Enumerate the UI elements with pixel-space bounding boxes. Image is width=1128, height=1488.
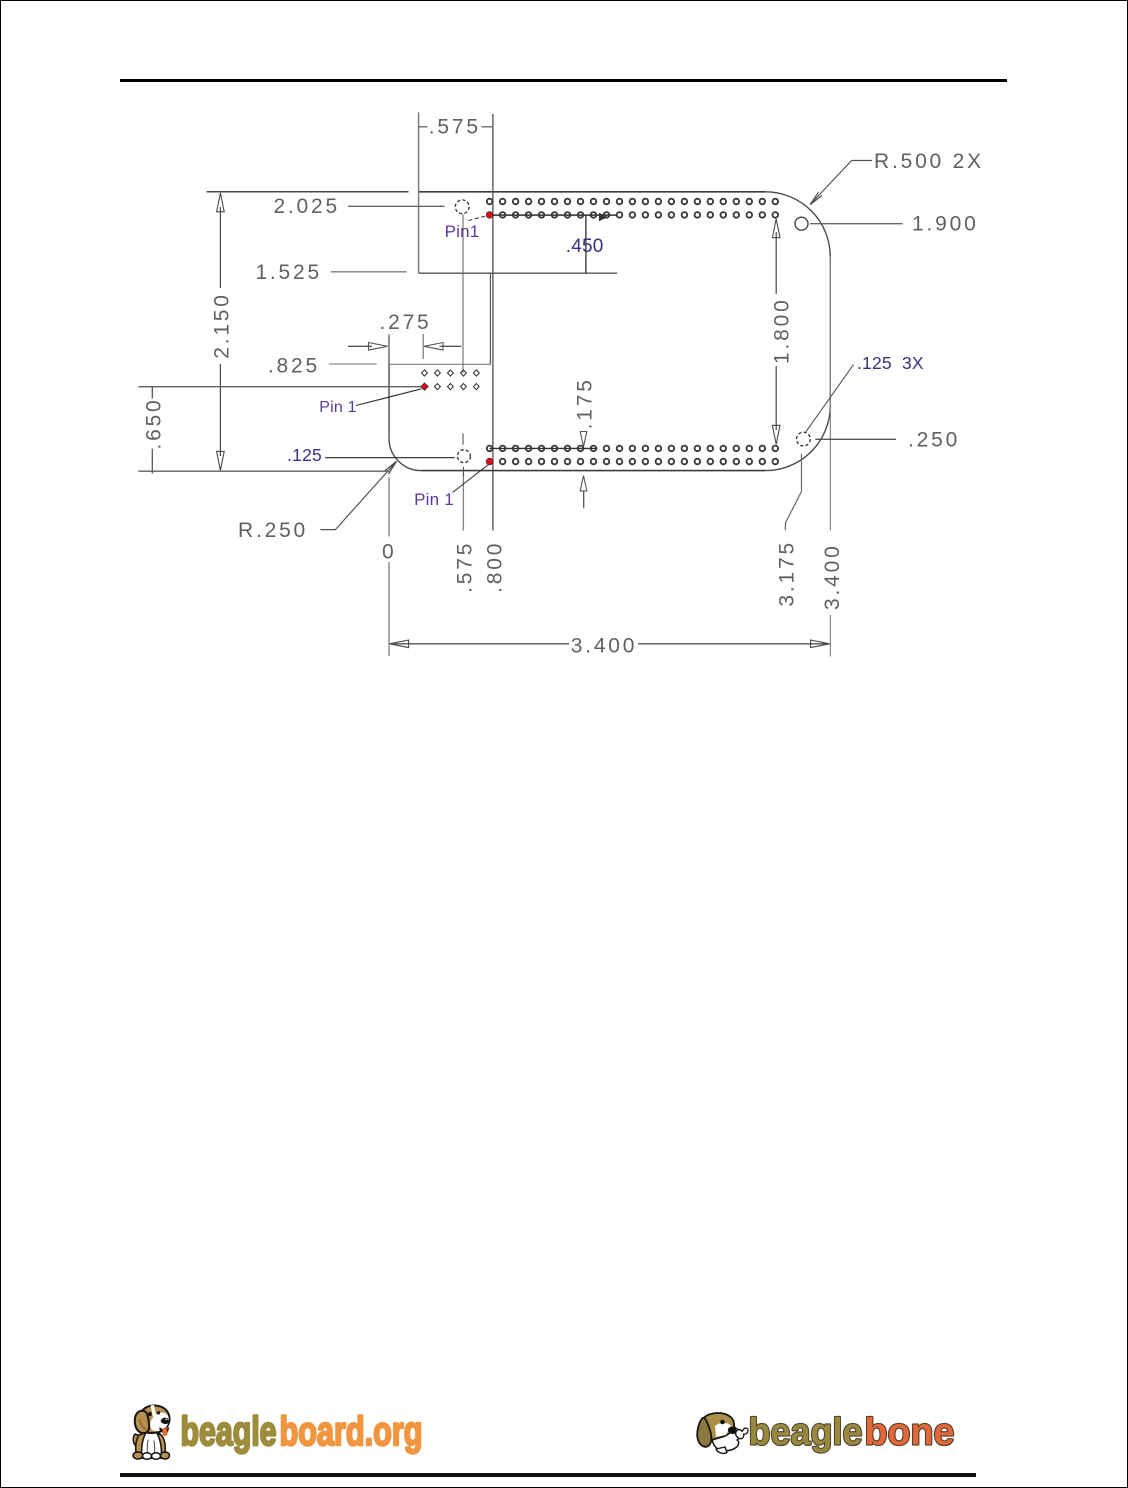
svg-text:bone: bone [865, 1412, 955, 1454]
beaglebone logo: beagle head mascot [697, 1413, 748, 1453]
ordinate 3.175: bent leader and rotated label [776, 454, 802, 607]
bottom expansion header row B (23 pins) [487, 459, 778, 465]
ordinate 3.400 right: extension line and rotated label [821, 406, 844, 657]
dimension .250 label and leader line [815, 429, 960, 452]
svg-text:.825: .825 [268, 355, 320, 378]
svg-text:Pin1: Pin1 [445, 222, 480, 241]
Pin1 label (top header) with leader [445, 216, 486, 241]
svg-text:beagle: beagle [749, 1412, 863, 1454]
svg-text:.125 3X: .125 3X [857, 353, 924, 373]
svg-text:Pin 1: Pin 1 [414, 490, 454, 509]
svg-text:.175: .175 [573, 377, 596, 429]
mounting hole bottom-right (3.175, .250) [797, 432, 811, 446]
bottom horizontal rule [120, 1473, 977, 1476]
beagleboard.org logo: beagle dog mascot [133, 1405, 170, 1459]
board outline: top-right corner arc R.500 [765, 192, 830, 257]
Pin 1 label (bottom header) with leader [414, 465, 488, 510]
board outline: bottom edge [421, 470, 765, 472]
top horizontal rule [120, 79, 1008, 83]
dimension .450 (navy): vertical line, pin row line, label [490, 213, 617, 273]
board outline: bottom-right corner arc R.500 [765, 406, 830, 471]
dimension .575 top: ticks and label [418, 116, 493, 139]
ordinate .575: extension line and rotated label [453, 474, 476, 593]
dimension .825 label and leader line [268, 355, 377, 378]
svg-text:Pin 1: Pin 1 [319, 399, 356, 416]
inner serial header row 2 (4 diamond pins + red Pin1) [435, 384, 480, 390]
R.500 2X label and leader arrow to top-right corner [810, 150, 984, 205]
dimension .175: rotated label, arrows at bottom rows [490, 377, 598, 508]
bottom header Pin1 red marker [487, 458, 493, 464]
dimension 2.025 label and leader line [273, 195, 444, 218]
board outline: left edge [388, 336, 390, 438]
svg-text:R.500 2X: R.500 2X [874, 150, 984, 173]
mounting hole bottom-left (.575, .125) [457, 433, 470, 476]
dimension 3.400 bottom: line, arrows, label [390, 635, 830, 658]
board outline: bottom-left corner arc R.250 [389, 438, 421, 471]
centerline through top-left hole down to inner header [462, 215, 464, 374]
inner serial header row 1 (5 diamond pins) [422, 370, 480, 376]
beagleboard.org logo text [181, 1408, 423, 1454]
svg-text:3.175: 3.175 [776, 540, 799, 607]
svg-text:R.250: R.250 [238, 519, 308, 542]
svg-text:.450: .450 [566, 236, 604, 257]
svg-text:3.400: 3.400 [821, 543, 844, 610]
svg-text:.250: .250 [908, 429, 960, 452]
svg-text:.575: .575 [429, 116, 481, 139]
.125 3X label (navy) and leader to bottom-right hole [806, 353, 924, 432]
inner header Pin1 red diamond [421, 383, 428, 390]
svg-text:.575: .575 [453, 541, 476, 593]
Pin 1 label (inner header) with leader [319, 389, 421, 416]
svg-text:beagle: beagle [181, 1408, 277, 1454]
svg-text:1.800: 1.800 [771, 297, 794, 364]
board outline: top edge [419, 191, 766, 193]
inner step line vertical x=490 [489, 273, 491, 364]
svg-text:1.900: 1.900 [912, 213, 979, 236]
svg-text:3.400: 3.400 [571, 635, 638, 658]
dimension .275: label, extension lines, opposing arrows [348, 311, 461, 363]
top header Pin1 red marker [486, 212, 492, 218]
dimension 1.900 label and leader line [810, 213, 978, 236]
svg-text:.125: .125 [287, 445, 322, 465]
board outline: right edge [829, 257, 831, 406]
top expansion header row A (23 pins) [487, 199, 778, 205]
mounting hole top-left (.575, 2.025) [455, 200, 469, 214]
dimension 1.800: vertical line, arrows, rotated label [771, 219, 794, 445]
beaglebone logo text [749, 1412, 955, 1454]
dimension 1.525 label and leader line [255, 261, 406, 284]
extension line x=493 (.575 right / .800 ordinate) [492, 114, 494, 531]
R.250 label and leader arrow to bottom-left corner [238, 461, 397, 542]
ordinate 0: extension line and label [382, 478, 396, 657]
inner step line horizontal y=364 [389, 363, 490, 365]
mounting hole top-right (3.175, 1.900) [795, 217, 808, 230]
dimension 2.150: extension lines, vertical line, arrows, rotated text [138, 192, 408, 471]
svg-text:.275: .275 [379, 311, 431, 334]
svg-text:2.025: 2.025 [273, 195, 340, 218]
bottom expansion header row A (23 pins) [487, 446, 778, 452]
dimension .125 label (navy) and leader line to hole [287, 445, 454, 465]
svg-text:0: 0 [382, 541, 396, 564]
extension line x=418.6 (.575 left) [418, 112, 420, 273]
reference line y=273 (1.525 level) [419, 272, 617, 274]
dimension .650: reference line, ticks, rotated text [138, 387, 424, 474]
svg-text:.650: .650 [143, 397, 166, 449]
svg-text:.800: .800 [483, 541, 506, 593]
svg-text:2.150: 2.150 [211, 292, 234, 359]
top expansion header row B (23 pins) [487, 212, 778, 218]
svg-text:board.org: board.org [280, 1408, 423, 1454]
svg-text:1.525: 1.525 [255, 261, 322, 284]
